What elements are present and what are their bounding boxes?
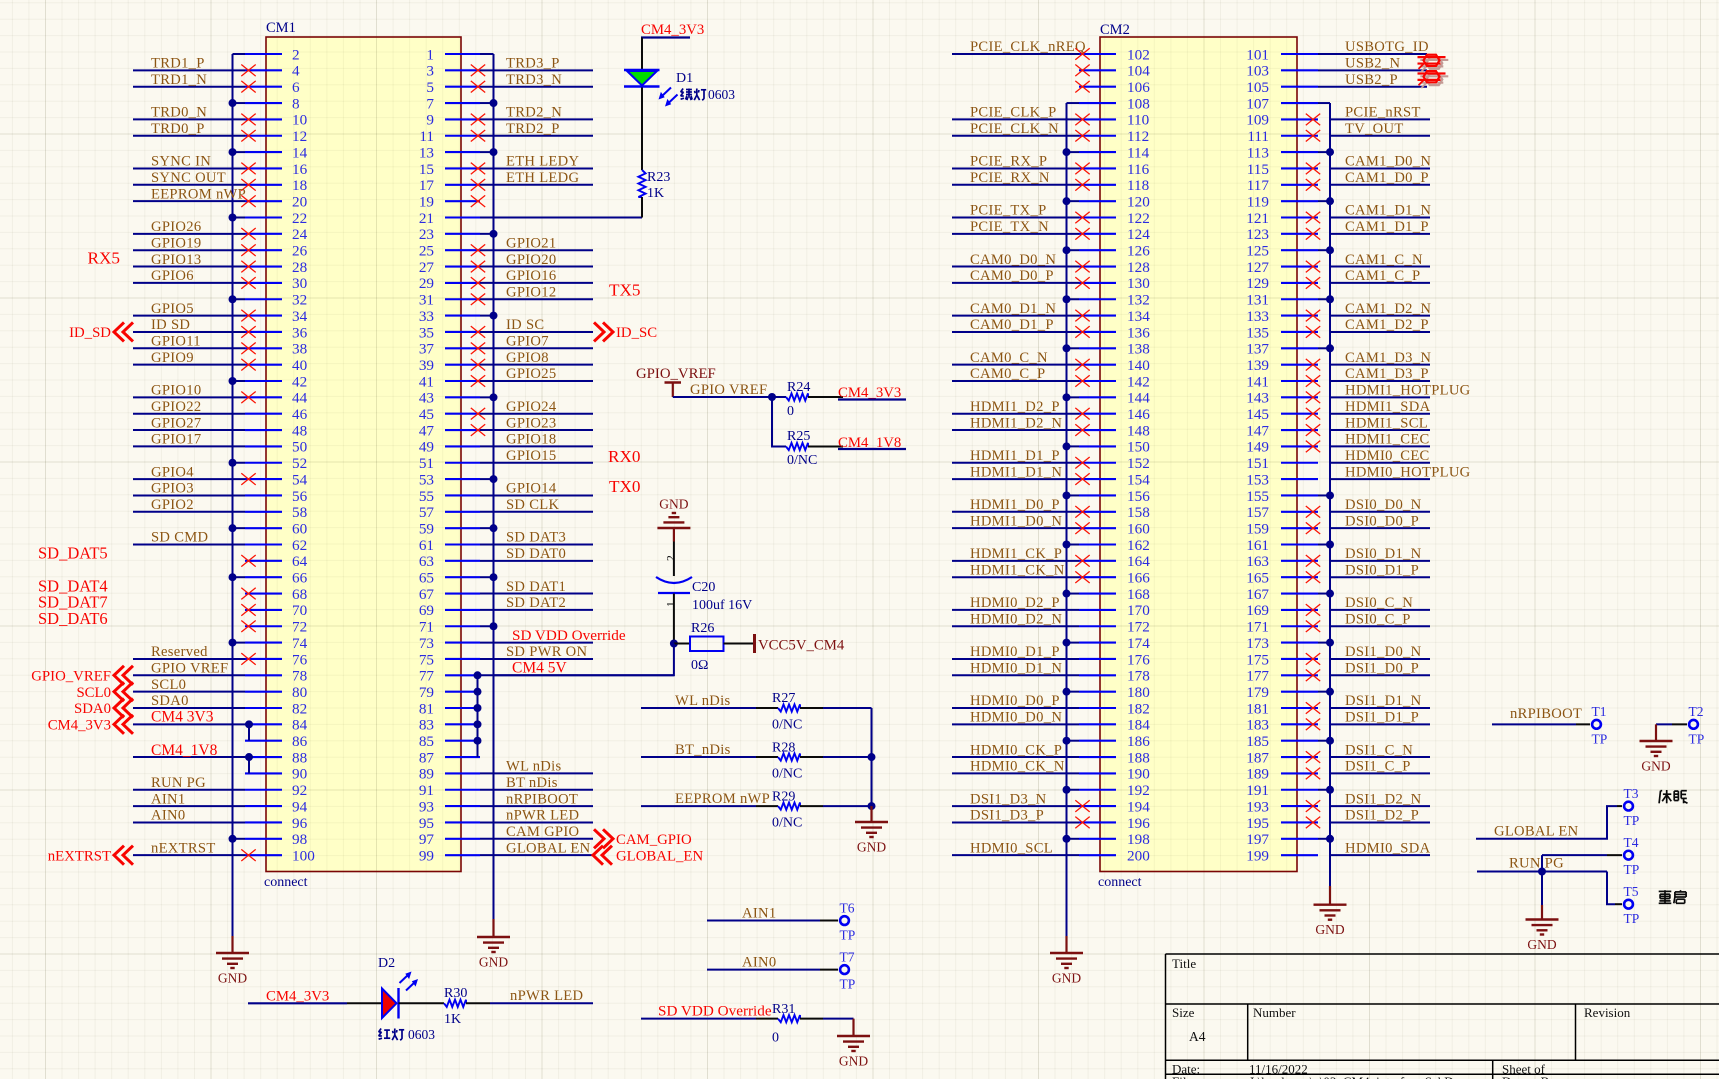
svg-text:DSI0_D1_P: DSI0_D1_P [1345, 562, 1419, 578]
svg-text:HDMI1_SDA: HDMI1_SDA [1345, 399, 1431, 415]
svg-text:180: 180 [1127, 684, 1150, 701]
svg-text:CM4_1V8: CM4_1V8 [151, 742, 218, 759]
svg-text:30: 30 [292, 275, 308, 292]
svg-text:29: 29 [419, 275, 434, 292]
svg-text:0603: 0603 [408, 1027, 435, 1042]
svg-text:46: 46 [292, 406, 308, 423]
svg-text:27: 27 [419, 259, 435, 276]
svg-text:T6: T6 [840, 900, 855, 915]
svg-text:CM4_3V3: CM4_3V3 [266, 989, 329, 1005]
svg-text:SDA0: SDA0 [74, 701, 111, 717]
svg-text:200: 200 [1127, 847, 1150, 864]
svg-text:97: 97 [419, 831, 435, 848]
svg-text:4: 4 [292, 63, 300, 80]
svg-text:CAM GPIO: CAM GPIO [506, 824, 579, 840]
svg-text:0/NC: 0/NC [772, 816, 802, 831]
svg-text:HDMI0_D1_P: HDMI0_D1_P [970, 644, 1060, 660]
svg-text:CAM0_D1_P: CAM0_D1_P [970, 317, 1054, 333]
svg-text:129: 129 [1246, 275, 1269, 292]
svg-text:65: 65 [419, 570, 434, 587]
svg-text:8: 8 [292, 95, 300, 112]
svg-text:115: 115 [1247, 161, 1269, 178]
svg-text:83: 83 [419, 717, 434, 734]
svg-text:GPIO11: GPIO11 [151, 334, 201, 350]
svg-text:HDMI1_D2_N: HDMI1_D2_N [970, 415, 1062, 431]
svg-text:CAM1_C_N: CAM1_C_N [1345, 252, 1423, 268]
svg-text:116: 116 [1127, 161, 1150, 178]
svg-text:GLOBAL_EN: GLOBAL_EN [616, 848, 703, 864]
svg-text:PCIE_RX_P: PCIE_RX_P [970, 154, 1047, 170]
svg-text:162: 162 [1127, 537, 1150, 554]
svg-text:6: 6 [292, 79, 300, 96]
svg-text:155: 155 [1246, 488, 1269, 505]
svg-text:TP: TP [1689, 731, 1705, 746]
svg-text:55: 55 [419, 488, 434, 505]
svg-text:141: 141 [1246, 373, 1269, 390]
svg-text:R26: R26 [691, 621, 714, 636]
svg-text:RUN PG: RUN PG [151, 775, 206, 791]
svg-text:TRD2_N: TRD2_N [506, 105, 562, 121]
svg-text:GPIO12: GPIO12 [506, 284, 556, 300]
svg-text:2: 2 [292, 46, 300, 63]
svg-text:HDMI1_D0_P: HDMI1_D0_P [970, 497, 1060, 513]
svg-text:23: 23 [419, 226, 434, 243]
svg-text:63: 63 [419, 553, 434, 570]
svg-text:HDMI0_CEC: HDMI0_CEC [1345, 448, 1430, 464]
svg-text:nRPIBOOT: nRPIBOOT [506, 791, 578, 807]
svg-text:157: 157 [1246, 504, 1269, 521]
svg-text:198: 198 [1127, 831, 1150, 848]
svg-text:131: 131 [1246, 292, 1269, 309]
svg-text:TRD3_N: TRD3_N [506, 72, 562, 88]
svg-text:TRD0_N: TRD0_N [151, 105, 207, 121]
svg-text:HDMI0_D0_P: HDMI0_D0_P [970, 693, 1060, 709]
svg-text:GPIO25: GPIO25 [506, 366, 556, 382]
svg-text:154: 154 [1127, 471, 1150, 488]
svg-text:HDMI1_SCL: HDMI1_SCL [1345, 415, 1428, 431]
svg-text:TP: TP [1624, 862, 1640, 877]
svg-text:Revision: Revision [1584, 1005, 1631, 1020]
svg-text:AIN0: AIN0 [151, 808, 185, 824]
svg-text:AIN1: AIN1 [742, 905, 776, 921]
svg-text:0603: 0603 [708, 87, 735, 102]
svg-text:T2: T2 [1689, 704, 1704, 719]
svg-text:134: 134 [1127, 308, 1150, 325]
svg-text:197: 197 [1246, 831, 1269, 848]
svg-text:84: 84 [292, 717, 308, 734]
svg-text:148: 148 [1127, 422, 1150, 439]
svg-text:Number: Number [1253, 1005, 1296, 1020]
svg-text:SYNC IN: SYNC IN [151, 154, 211, 170]
svg-text:CAM0_C_P: CAM0_C_P [970, 366, 1045, 382]
svg-text:CAM1_D1_N: CAM1_D1_N [1345, 203, 1431, 219]
svg-text:177: 177 [1246, 668, 1269, 685]
svg-text:GPIO24: GPIO24 [506, 399, 557, 415]
svg-text:TP: TP [840, 928, 856, 943]
svg-text:DSI1_C_N: DSI1_C_N [1345, 742, 1413, 758]
svg-text:170: 170 [1127, 602, 1150, 619]
svg-text:HDMI1_D1_N: HDMI1_D1_N [970, 464, 1062, 480]
svg-text:PCIE_TX_N: PCIE_TX_N [970, 219, 1049, 235]
svg-text:39: 39 [419, 357, 434, 374]
svg-text:183: 183 [1246, 717, 1269, 734]
svg-text:67: 67 [419, 586, 435, 603]
svg-text:CAM_GPIO: CAM_GPIO [616, 832, 692, 848]
svg-text:GND: GND [857, 840, 886, 855]
svg-text:18: 18 [292, 177, 308, 194]
svg-text:47: 47 [419, 422, 435, 439]
svg-text:69: 69 [419, 602, 434, 619]
svg-text:34: 34 [292, 308, 308, 325]
svg-text:ETH LEDG: ETH LEDG [506, 170, 579, 186]
svg-text:194: 194 [1127, 798, 1150, 815]
svg-text:169: 169 [1246, 602, 1269, 619]
svg-text:59: 59 [419, 520, 434, 537]
svg-text:101: 101 [1246, 46, 1269, 63]
svg-text:191: 191 [1246, 782, 1269, 799]
svg-text:connect: connect [1098, 875, 1142, 890]
svg-text:TX5: TX5 [609, 281, 641, 300]
svg-text:DSI0_D0_N: DSI0_D0_N [1345, 497, 1422, 513]
svg-text:35: 35 [419, 324, 434, 341]
svg-text:0/NC: 0/NC [772, 767, 802, 782]
svg-text:167: 167 [1246, 586, 1269, 603]
svg-text:60: 60 [292, 520, 308, 537]
svg-text:74: 74 [292, 635, 308, 652]
svg-text:nPWR LED: nPWR LED [510, 988, 583, 1004]
svg-text:31: 31 [419, 292, 434, 309]
svg-text:5: 5 [426, 79, 434, 96]
svg-text:BT nDis: BT nDis [506, 775, 558, 791]
svg-text:68: 68 [292, 586, 308, 603]
svg-text:CAM1_D2_N: CAM1_D2_N [1345, 301, 1431, 317]
svg-text:2: 2 [666, 555, 678, 561]
svg-text:CAM1_D3_N: CAM1_D3_N [1345, 350, 1431, 366]
svg-text:100: 100 [292, 847, 315, 864]
svg-text:DSI1_D0_N: DSI1_D0_N [1345, 644, 1422, 660]
svg-text:HDMI0_D0_N: HDMI0_D0_N [970, 710, 1062, 726]
svg-text:GPIO8: GPIO8 [506, 350, 549, 366]
svg-text:71: 71 [419, 619, 434, 636]
svg-text:160: 160 [1127, 520, 1150, 537]
svg-text:GPIO_VREF: GPIO_VREF [636, 366, 716, 382]
svg-text:CAM0_D0_P: CAM0_D0_P [970, 268, 1054, 284]
svg-text:19: 19 [419, 193, 434, 210]
svg-text:RX5: RX5 [88, 248, 120, 267]
svg-text:140: 140 [1127, 357, 1150, 374]
svg-text:GND: GND [659, 497, 688, 512]
svg-text:HDMI1_D0_N: HDMI1_D0_N [970, 513, 1062, 529]
svg-text:15: 15 [419, 161, 434, 178]
svg-text:CM4 3V3: CM4 3V3 [151, 708, 214, 725]
svg-text:GND: GND [218, 971, 247, 986]
svg-text:CAM1_D2_P: CAM1_D2_P [1345, 317, 1429, 333]
svg-text:GPIO21: GPIO21 [506, 235, 556, 251]
svg-text:188: 188 [1127, 749, 1150, 766]
svg-text:R29: R29 [772, 789, 795, 804]
svg-text:SD CMD: SD CMD [151, 530, 208, 546]
svg-text:130: 130 [1127, 275, 1150, 292]
svg-text:125: 125 [1246, 243, 1269, 260]
svg-text:73: 73 [419, 635, 434, 652]
svg-text:DSI1_D3_N: DSI1_D3_N [970, 791, 1047, 807]
svg-text:164: 164 [1127, 553, 1150, 570]
svg-text:PCIE_CLK_N: PCIE_CLK_N [970, 121, 1059, 137]
svg-text:1K: 1K [647, 186, 664, 201]
svg-text:181: 181 [1246, 700, 1269, 717]
svg-text:11: 11 [419, 128, 434, 145]
svg-text:25: 25 [419, 243, 434, 260]
svg-text:156: 156 [1127, 488, 1150, 505]
svg-text:107: 107 [1246, 95, 1269, 112]
svg-text:61: 61 [419, 537, 434, 554]
svg-text:57: 57 [419, 504, 435, 521]
svg-text:SD_DAT5: SD_DAT5 [38, 544, 108, 563]
svg-text:A4: A4 [1189, 1029, 1206, 1044]
svg-text:122: 122 [1127, 210, 1150, 227]
svg-text:110: 110 [1127, 112, 1150, 129]
svg-text:SD_DAT6: SD_DAT6 [38, 609, 108, 628]
svg-text:HDMI1_CEC: HDMI1_CEC [1345, 432, 1430, 448]
svg-text:179: 179 [1246, 684, 1269, 701]
svg-text:T4: T4 [1624, 835, 1639, 850]
svg-text:96: 96 [292, 815, 308, 832]
svg-text:GPIO19: GPIO19 [151, 235, 201, 251]
svg-text:GPIO9: GPIO9 [151, 350, 194, 366]
svg-text:TV_OUT: TV_OUT [1345, 121, 1404, 137]
svg-text:80: 80 [292, 684, 308, 701]
svg-text:20: 20 [292, 193, 308, 210]
svg-text:103: 103 [1246, 63, 1269, 80]
svg-text:52: 52 [292, 455, 307, 472]
svg-text:1K: 1K [444, 1012, 461, 1027]
svg-text:33: 33 [419, 308, 434, 325]
svg-text:CAM1_D0_P: CAM1_D0_P [1345, 170, 1429, 186]
svg-text:CAM0_C_N: CAM0_C_N [970, 350, 1048, 366]
svg-text:123: 123 [1246, 226, 1269, 243]
svg-text:GPIO3: GPIO3 [151, 481, 194, 497]
svg-text:T1: T1 [1592, 704, 1607, 719]
svg-text:64: 64 [292, 553, 308, 570]
svg-text:42: 42 [292, 373, 307, 390]
svg-text:81: 81 [419, 700, 434, 717]
svg-text:40: 40 [292, 357, 308, 374]
svg-text:159: 159 [1246, 520, 1269, 537]
svg-text:TRD2_P: TRD2_P [506, 121, 560, 137]
svg-text:USBOTG_ID: USBOTG_ID [1345, 39, 1429, 55]
svg-text:T5: T5 [1624, 884, 1639, 899]
svg-text:TRD0_P: TRD0_P [151, 121, 205, 137]
svg-text:36: 36 [292, 324, 308, 341]
svg-text:189: 189 [1246, 766, 1269, 783]
svg-text:117: 117 [1247, 177, 1270, 194]
svg-text:PCIE_nRST: PCIE_nRST [1345, 105, 1421, 121]
svg-text:TP: TP [1624, 911, 1640, 926]
svg-text:175: 175 [1246, 651, 1269, 668]
svg-text:85: 85 [419, 733, 434, 750]
svg-text:DSI0_D1_N: DSI0_D1_N [1345, 546, 1422, 562]
svg-text:ETH LEDY: ETH LEDY [506, 154, 579, 170]
svg-text:184: 184 [1127, 717, 1150, 734]
svg-text:105: 105 [1246, 79, 1269, 96]
svg-text:0: 0 [787, 404, 794, 419]
svg-text:100uf 16V: 100uf 16V [692, 598, 752, 613]
svg-text:150: 150 [1127, 439, 1150, 456]
svg-text:TP: TP [1592, 731, 1608, 746]
svg-text:GPIO15: GPIO15 [506, 448, 556, 464]
svg-text:BT_nDis: BT_nDis [675, 742, 731, 758]
svg-text:HDMI0_CK_N: HDMI0_CK_N [970, 759, 1065, 775]
svg-text:CM4 5V: CM4 5V [512, 660, 567, 677]
svg-text:SCL0: SCL0 [76, 685, 111, 701]
svg-text:D2: D2 [378, 956, 395, 971]
svg-text:190: 190 [1127, 766, 1150, 783]
svg-text:CM4_3V3: CM4_3V3 [48, 718, 111, 734]
svg-text:87: 87 [419, 749, 435, 766]
svg-text:R24: R24 [787, 380, 810, 395]
svg-text:16: 16 [292, 161, 308, 178]
svg-text:44: 44 [292, 390, 308, 407]
svg-text:ID_SC: ID_SC [616, 325, 657, 341]
svg-text:GPIO6: GPIO6 [151, 268, 194, 284]
svg-text:DSI1_D2_N: DSI1_D2_N [1345, 791, 1422, 807]
svg-text:GPIO16: GPIO16 [506, 268, 556, 284]
svg-text:147: 147 [1246, 422, 1269, 439]
svg-text:GND: GND [479, 955, 508, 970]
svg-text:GPIO17: GPIO17 [151, 432, 201, 448]
svg-text:174: 174 [1127, 635, 1150, 652]
svg-text:161: 161 [1246, 537, 1269, 554]
svg-text:99: 99 [419, 847, 434, 864]
svg-text:91: 91 [419, 782, 434, 799]
svg-text:File:: File: [1172, 1074, 1196, 1079]
svg-text:109: 109 [1246, 112, 1269, 129]
svg-text:GPIO18: GPIO18 [506, 432, 556, 448]
svg-text:GPIO22: GPIO22 [151, 399, 201, 415]
svg-text:DSI1_D0_P: DSI1_D0_P [1345, 661, 1419, 677]
svg-text:PCIE_RX_N: PCIE_RX_N [970, 170, 1050, 186]
svg-text:SD CLK: SD CLK [506, 497, 559, 513]
svg-text:75: 75 [419, 651, 434, 668]
svg-text:45: 45 [419, 406, 434, 423]
svg-text:ID SC: ID SC [506, 317, 544, 333]
svg-text:R31: R31 [772, 1002, 795, 1017]
svg-text:1: 1 [666, 601, 678, 607]
svg-text:104: 104 [1127, 63, 1150, 80]
svg-text:0Ω: 0Ω [691, 658, 708, 673]
svg-text:102: 102 [1127, 46, 1150, 63]
svg-text:112: 112 [1127, 128, 1149, 145]
svg-text:37: 37 [419, 341, 435, 358]
svg-text:EEPROM nWP: EEPROM nWP [675, 791, 770, 807]
svg-text:72: 72 [292, 619, 307, 636]
svg-text:17: 17 [419, 177, 435, 194]
svg-text:GND: GND [1641, 759, 1670, 774]
svg-text:CAM1_D1_P: CAM1_D1_P [1345, 219, 1429, 235]
svg-text:GND: GND [1527, 937, 1556, 952]
svg-text:DSI1_C_P: DSI1_C_P [1345, 759, 1411, 775]
svg-text:AIN0: AIN0 [742, 954, 776, 970]
svg-text:173: 173 [1246, 635, 1269, 652]
svg-text:RX0: RX0 [608, 447, 640, 466]
svg-text:171: 171 [1246, 619, 1269, 636]
svg-text:94: 94 [292, 798, 308, 815]
svg-text:62: 62 [292, 537, 307, 554]
svg-text:137: 137 [1246, 341, 1269, 358]
svg-text:J:\hardware\..\03_CM4_interfac: J:\hardware\..\03_CM4_interface.SchDoc [1249, 1074, 1466, 1079]
svg-text:GND: GND [1315, 922, 1344, 937]
svg-text:78: 78 [292, 668, 308, 685]
svg-text:SD PWR ON: SD PWR ON [506, 644, 588, 660]
svg-text:54: 54 [292, 471, 308, 488]
svg-text:CAM0_D0_N: CAM0_D0_N [970, 252, 1056, 268]
svg-text:0: 0 [772, 1031, 779, 1046]
svg-text:124: 124 [1127, 226, 1150, 243]
svg-text:GPIO7: GPIO7 [506, 334, 549, 350]
svg-text:Drawn By:: Drawn By: [1502, 1074, 1559, 1079]
svg-text:GPIO14: GPIO14 [506, 481, 557, 497]
svg-text:144: 144 [1127, 390, 1150, 407]
svg-text:DSI1_D3_P: DSI1_D3_P [970, 808, 1044, 824]
svg-text:7: 7 [426, 95, 434, 112]
svg-text:TP: TP [1624, 813, 1640, 828]
svg-text:connect: connect [264, 875, 308, 890]
svg-text:CAM1_C_P: CAM1_C_P [1345, 268, 1420, 284]
svg-text:0/NC: 0/NC [772, 718, 802, 733]
svg-text:12: 12 [292, 128, 307, 145]
svg-text:53: 53 [419, 471, 434, 488]
svg-text:TRD1_N: TRD1_N [151, 72, 207, 88]
svg-text:HDMI1_D2_P: HDMI1_D2_P [970, 399, 1060, 415]
svg-text:111: 111 [1247, 128, 1269, 145]
svg-text:136: 136 [1127, 324, 1150, 341]
svg-text:WL nDis: WL nDis [506, 759, 561, 775]
svg-text:192: 192 [1127, 782, 1150, 799]
svg-text:DSI1_D2_P: DSI1_D2_P [1345, 808, 1419, 824]
svg-text:WL nDis: WL nDis [675, 693, 730, 709]
svg-text:GPIO VREF: GPIO VREF [690, 382, 767, 398]
svg-text:168: 168 [1127, 586, 1150, 603]
svg-text:149: 149 [1246, 439, 1269, 456]
svg-text:43: 43 [419, 390, 434, 407]
svg-text:3: 3 [426, 63, 434, 80]
svg-text:DSI0_C_N: DSI0_C_N [1345, 595, 1413, 611]
svg-text:21: 21 [419, 210, 434, 227]
svg-text:nEXTRST: nEXTRST [151, 840, 216, 856]
svg-text:ID_SD: ID_SD [69, 325, 111, 341]
svg-text:C20: C20 [692, 580, 715, 595]
svg-text:CAM1_D3_P: CAM1_D3_P [1345, 366, 1429, 382]
svg-text:113: 113 [1247, 144, 1269, 161]
svg-text:SD VDD Override: SD VDD Override [658, 1002, 772, 1019]
svg-text:SD VDD Override: SD VDD Override [512, 627, 626, 644]
svg-text:HDMI0_SDA: HDMI0_SDA [1345, 840, 1431, 856]
svg-text:142: 142 [1127, 373, 1150, 390]
svg-text:GPIO VREF: GPIO VREF [151, 661, 228, 677]
svg-text:199: 199 [1246, 847, 1269, 864]
svg-text:DSI1_D1_N: DSI1_D1_N [1345, 693, 1422, 709]
svg-text:CM2: CM2 [1100, 22, 1130, 38]
svg-text:121: 121 [1246, 210, 1269, 227]
svg-text:108: 108 [1127, 95, 1150, 112]
svg-text:SD DAT2: SD DAT2 [506, 595, 566, 611]
svg-text:SD DAT3: SD DAT3 [506, 530, 566, 546]
svg-text:128: 128 [1127, 259, 1150, 276]
svg-text:132: 132 [1127, 292, 1150, 309]
svg-text:VCC5V_CM4: VCC5V_CM4 [758, 638, 845, 654]
svg-text:58: 58 [292, 504, 308, 521]
svg-text:95: 95 [419, 815, 434, 832]
